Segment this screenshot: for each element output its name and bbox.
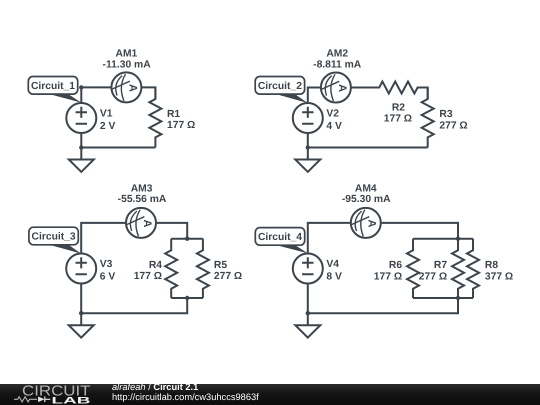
junction: [306, 145, 310, 149]
wire R2 to R3: [418, 88, 428, 100]
footer logo CIRCUIT LAB: [14, 383, 91, 405]
net flag Circuit_4: [255, 228, 307, 254]
ground: [69, 313, 94, 337]
junction: [79, 85, 83, 89]
svg-text:V4: V4: [326, 259, 339, 270]
wire V3 bottom: [80, 284, 82, 314]
junction: [185, 237, 189, 241]
svg-text:Circuit_4: Circuit_4: [258, 232, 302, 243]
wire bottom circuit 2: [308, 147, 428, 149]
wire V3 top corner to ammeter AM3: [81, 223, 126, 254]
voltage source V4: [293, 254, 323, 284]
ground: [295, 148, 320, 172]
wire V1 vertical: [80, 87, 82, 147]
resistor R3: [422, 88, 434, 148]
junction: [79, 145, 83, 149]
svg-text:AM2: AM2: [326, 49, 348, 60]
resistor R7: [452, 239, 464, 298]
resistor R4: [165, 239, 177, 298]
wire V4 top corner to ammeter AM4: [308, 223, 351, 254]
junction: [79, 311, 83, 315]
wire ammeter AM3 to parallel rail: [156, 223, 187, 239]
resistor R2: [351, 82, 428, 94]
svg-text:AM3: AM3: [131, 183, 153, 194]
wire top rail circuit 4: [413, 238, 473, 240]
wire node to ammeter AM1: [81, 86, 111, 88]
svg-text:Circuit_1: Circuit_1: [31, 81, 75, 92]
resistor R1: [149, 87, 161, 147]
svg-text:Circuit_2: Circuit_2: [258, 81, 302, 92]
svg-text:2 V: 2 V: [100, 121, 116, 132]
svg-text:A: A: [126, 84, 138, 92]
voltage source V1: [66, 103, 96, 133]
svg-text:377 Ω: 377 Ω: [485, 271, 513, 282]
net flag Circuit_3: [29, 227, 81, 253]
wire top rail circuit 3: [171, 238, 203, 240]
junction: [306, 311, 310, 315]
net flag Circuit_2: [255, 77, 308, 104]
svg-text:R6: R6: [389, 260, 402, 271]
svg-text:V3: V3: [100, 259, 113, 270]
svg-text:A: A: [336, 84, 348, 92]
wire ammeter AM4 to parallel rail: [381, 223, 458, 239]
svg-text:A: A: [366, 220, 378, 228]
wire ammeter AM2 to R2: [351, 87, 379, 89]
wire corner to ammeter AM2: [308, 88, 321, 104]
resistor R6: [407, 239, 419, 298]
ground: [69, 148, 94, 172]
svg-text:277 Ω: 277 Ω: [214, 271, 242, 282]
svg-text:4 V: 4 V: [326, 121, 342, 132]
svg-text:-55.56 mA: -55.56 mA: [118, 194, 167, 205]
svg-text:8 V: 8 V: [326, 272, 342, 283]
voltage source V3: [66, 254, 96, 284]
svg-text:-11.30 mA: -11.30 mA: [103, 60, 152, 71]
svg-text:R3: R3: [439, 109, 452, 120]
svg-text:6 V: 6 V: [100, 272, 116, 283]
wire bottom rail circuit 4: [413, 297, 473, 299]
wire bottom circuit 1: [81, 147, 155, 149]
svg-text:LAB: LAB: [52, 395, 91, 405]
svg-text:R4: R4: [149, 260, 162, 271]
svg-text:R2: R2: [392, 102, 405, 113]
ammeter AM3: [126, 208, 156, 238]
svg-text:V1: V1: [100, 108, 113, 119]
wire bottom rail circuit 3: [171, 297, 203, 299]
ammeter AM1: [111, 72, 141, 102]
ammeter AM2: [321, 73, 351, 103]
ammeter AM4: [351, 208, 381, 238]
svg-text:AM1: AM1: [116, 49, 138, 60]
resistor R8: [467, 239, 479, 298]
resistor R5: [197, 239, 209, 298]
svg-text:Circuit_3: Circuit_3: [32, 232, 76, 243]
voltage source V2: [293, 103, 323, 133]
net flag Circuit_1: [28, 77, 81, 103]
svg-text:R5: R5: [214, 260, 227, 271]
wire rail to bottom circuit 3: [81, 298, 187, 313]
junction: [456, 296, 460, 300]
svg-text:-95.30 mA: -95.30 mA: [342, 194, 391, 205]
svg-text:R1: R1: [167, 109, 180, 120]
svg-text:277 Ω: 277 Ω: [419, 271, 447, 282]
footer bar: [0, 384, 540, 405]
wire rail to bottom circuit 4: [308, 298, 458, 313]
svg-text:177 Ω: 177 Ω: [167, 120, 195, 131]
svg-text:177 Ω: 177 Ω: [374, 271, 402, 282]
svg-text:R8: R8: [485, 260, 498, 271]
wire V4 bottom: [307, 284, 309, 314]
svg-text:R7: R7: [434, 260, 447, 271]
svg-text:-8.811 mA: -8.811 mA: [313, 60, 362, 71]
wire V2 vertical: [307, 103, 309, 147]
svg-text:177 Ω: 177 Ω: [134, 271, 162, 282]
junction: [456, 237, 460, 241]
svg-text:AM4: AM4: [355, 183, 377, 194]
svg-text:A: A: [141, 220, 153, 228]
wire ammeter AM1 to R1 top: [141, 87, 155, 99]
svg-text:177 Ω: 177 Ω: [384, 113, 412, 124]
ground: [295, 313, 320, 337]
svg-text:277 Ω: 277 Ω: [439, 120, 467, 131]
junction: [185, 296, 189, 300]
svg-text:V2: V2: [326, 108, 339, 119]
